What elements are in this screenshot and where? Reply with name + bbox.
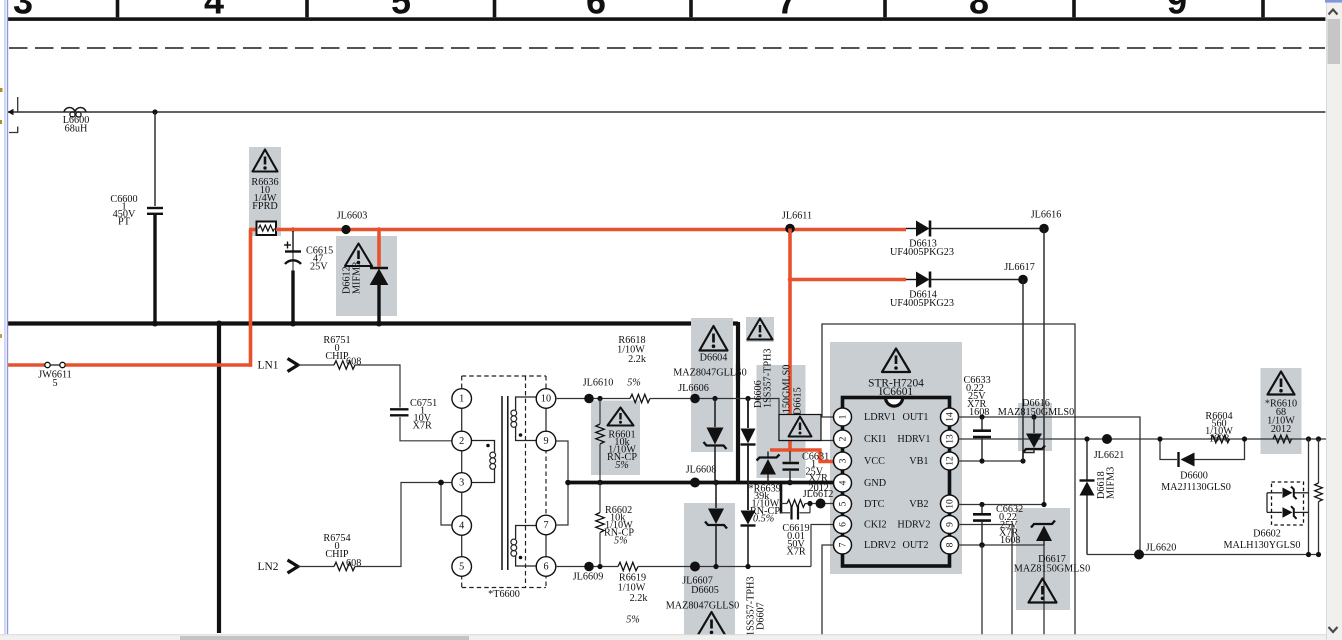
pin 1 LDRV1 <box>834 408 852 426</box>
wire red: JW6611 rail left <box>8 363 45 367</box>
junction R6639/C6619 <box>807 501 812 506</box>
warning triangle IC6601 <box>882 349 910 373</box>
svg-text:GND: GND <box>864 478 886 489</box>
svg-text:VB1: VB1 <box>909 456 928 467</box>
node JL6611 <box>785 224 795 234</box>
junction D6605/GND <box>713 480 719 486</box>
pin 10 VB2 <box>941 495 959 513</box>
svg-text:5%: 5% <box>614 536 628 547</box>
wire: C6615 to bus (thick) <box>291 271 294 324</box>
left panel border lines <box>4 0 5 634</box>
svg-text:X7R: X7R <box>413 421 432 432</box>
toolbar blue sliver top right <box>1325 0 1342 3</box>
bus: main thick horizontal <box>8 321 738 325</box>
svg-text:2: 2 <box>839 436 849 441</box>
warning label box D6605 <box>666 576 740 637</box>
pin 5 <box>452 557 472 577</box>
wire: R6619 to JL6607 <box>638 566 695 568</box>
svg-text:2.2k: 2.2k <box>628 354 647 365</box>
ruler tick 4/5 <box>305 0 309 17</box>
junction red D6612 <box>377 227 382 232</box>
svg-text:MAZ8150GMLS0: MAZ8150GMLS0 <box>1014 564 1090 575</box>
junction C6632 top <box>979 502 984 507</box>
wire: HDRV2 line <box>958 525 1012 640</box>
junction VB2/D6617 <box>1041 502 1046 507</box>
zener D6605 <box>705 483 727 567</box>
svg-text:X7R: X7R <box>786 547 805 558</box>
warning label box R6636 <box>251 150 278 213</box>
pin 6 <box>536 557 556 577</box>
svg-text:JL6606: JL6606 <box>678 383 709 394</box>
ruler tick 3/4 <box>116 0 120 17</box>
resistor R6610 <box>1273 435 1292 443</box>
svg-text:5: 5 <box>839 501 849 506</box>
wire: pin9 to GND bus <box>556 441 569 483</box>
svg-text:JL6616: JL6616 <box>1031 210 1062 221</box>
junction C6633 bottom <box>979 458 984 463</box>
pin 2 CKI1 <box>834 430 852 448</box>
diode D6606 <box>741 399 756 511</box>
resistor R6754 <box>323 533 361 571</box>
winding secondary upper <box>511 397 537 441</box>
wire: OUT1 line <box>958 417 1140 555</box>
ruler tick 7/8 <box>883 0 887 17</box>
svg-text:13: 13 <box>946 434 956 444</box>
node arrow at left edge <box>8 109 14 115</box>
junction R6601 top <box>597 396 602 401</box>
wire: right vertical plain <box>1308 439 1310 555</box>
junction red C6615 <box>291 227 296 232</box>
svg-text:MIFM3: MIFM3 <box>1106 467 1117 499</box>
junction C6633 top <box>979 414 984 419</box>
scrollbar thumb <box>1328 19 1341 64</box>
node JL6606 <box>690 394 700 404</box>
junction C6600/bus <box>152 321 158 327</box>
junction right pair bottom <box>1306 552 1311 557</box>
pin 7 LDRV2 <box>834 536 852 554</box>
warning label box R6601 <box>607 408 637 472</box>
pin 7 <box>536 515 556 535</box>
pin 8 OUT2 <box>941 536 959 554</box>
wire: LN2 to R6754 <box>298 566 334 568</box>
pin 1 <box>452 389 472 409</box>
resistor R6604 <box>1205 411 1233 445</box>
junction VB1/JL6617 <box>1020 458 1025 463</box>
wire: HDRV1 line <box>958 438 1327 440</box>
pin 9 HDRV2 <box>941 516 959 534</box>
junction C6632 bottom <box>979 542 985 548</box>
svg-text:12: 12 <box>946 456 956 466</box>
diode D6607 <box>741 511 756 567</box>
IC6601 body <box>843 398 950 567</box>
left margin marks <box>0 88 3 92</box>
scrollbar down arrow <box>1329 627 1338 632</box>
svg-text:5%: 5% <box>615 460 629 471</box>
diode D6618 <box>1080 439 1117 555</box>
svg-text:1SS357-TPH3: 1SS357-TPH3 <box>763 349 774 408</box>
resistor R6618 <box>617 335 650 403</box>
bus: secondary GND thick <box>566 481 838 485</box>
svg-text:VB2: VB2 <box>909 499 928 510</box>
svg-text:MAZ8047GLLS0: MAZ8047GLLS0 <box>666 601 740 612</box>
diode D6614 <box>890 272 954 310</box>
wire: R6618 to CKI1 <box>650 399 834 441</box>
diode D6600 bypass <box>1160 439 1245 493</box>
right scrollbar track <box>1327 0 1342 640</box>
svg-text:8: 8 <box>946 542 956 547</box>
wire: D6613 to JL6616 <box>930 228 1044 230</box>
pin 14 OUT1 <box>941 408 959 426</box>
svg-text:MALH130YGLS0: MALH130YGLS0 <box>1224 540 1301 551</box>
wire: pin4 link <box>441 483 452 526</box>
transformer core <box>502 396 508 570</box>
svg-text:5: 5 <box>52 378 57 389</box>
svg-text:HDRV2: HDRV2 <box>897 520 930 531</box>
warning label box D6617 <box>1014 554 1090 603</box>
junction D6606 <box>745 396 750 401</box>
ruler band numbers <box>13 0 1187 22</box>
svg-text:UF4005PKG23: UF4005PKG23 <box>890 298 954 309</box>
gray label-box underlays <box>249 147 1302 640</box>
node JL6612 <box>816 499 826 509</box>
junction right pair top <box>1306 436 1311 441</box>
capacitor C6600 <box>110 194 163 228</box>
svg-text:OUT1: OUT1 <box>902 412 928 423</box>
junction red D6614 rail <box>788 277 793 282</box>
svg-text:1: 1 <box>839 414 849 419</box>
svg-text:CKI1: CKI1 <box>864 434 887 445</box>
svg-text:9: 9 <box>543 436 548 447</box>
wire red: JW6611 riser <box>249 230 253 367</box>
svg-text:1: 1 <box>459 394 464 405</box>
node JL6617 <box>1018 275 1028 285</box>
svg-text:JL6621: JL6621 <box>1094 450 1125 461</box>
svg-text:D6615: D6615 <box>793 387 804 415</box>
svg-text:2.2k: 2.2k <box>630 593 649 604</box>
svg-text:JL6610: JL6610 <box>583 378 614 389</box>
warning label box R6610 <box>1265 372 1297 436</box>
wire stub tick <box>17 97 19 113</box>
pin 3 VCC <box>834 452 852 470</box>
resistor R6639 <box>749 483 835 525</box>
transformer T6600 dashed boundary <box>462 376 546 600</box>
pin 10 <box>536 389 556 409</box>
pin 6 CKI2 <box>834 516 852 534</box>
wire: R6751 to C6751 <box>355 365 400 408</box>
svg-text:FPRD: FPRD <box>252 201 277 212</box>
dual diode D6602 <box>1224 482 1309 551</box>
node JL6616 <box>1039 224 1049 234</box>
bottom scrollbar thumb <box>180 636 469 640</box>
node junction at top line <box>152 109 157 114</box>
svg-text:5%: 5% <box>626 615 640 626</box>
svg-text:6: 6 <box>543 562 548 573</box>
warning label box D6604 <box>673 326 747 380</box>
wire: CKI2 riser <box>811 525 834 567</box>
resistor R6619 <box>618 562 649 625</box>
svg-text:6: 6 <box>839 522 849 527</box>
node JL6608 <box>690 478 700 488</box>
node JL6621 <box>1102 434 1112 444</box>
winding secondary lower <box>511 526 537 567</box>
warning label box D6612 <box>342 244 373 295</box>
dashed boundary line <box>9 47 1325 49</box>
pin 2 <box>452 431 472 451</box>
svg-text:JL6620: JL6620 <box>1146 543 1177 554</box>
junction D6600 right <box>1242 436 1247 441</box>
svg-text:MA2J1130GLS0: MA2J1130GLS0 <box>1161 482 1231 493</box>
junction red C6611 <box>788 448 793 453</box>
svg-text:D6605: D6605 <box>691 585 719 596</box>
svg-text:5: 5 <box>459 562 464 573</box>
svg-text:608: 608 <box>346 558 361 569</box>
svg-text:HDRV1: HDRV1 <box>897 434 930 445</box>
svg-text:PT: PT <box>118 217 131 228</box>
resistor R6602 vertical <box>596 483 635 567</box>
svg-text:JL6617: JL6617 <box>1004 262 1035 273</box>
svg-text:MIFM3: MIFM3 <box>352 262 363 294</box>
wire: OUT2 line <box>958 545 1044 640</box>
inductor L6600 <box>63 107 90 134</box>
node LN1 <box>258 359 298 372</box>
svg-text:LN2: LN2 <box>258 561 279 573</box>
junction R6602/JL6609 <box>597 564 602 569</box>
wire: LN1 to R6751 <box>298 364 334 366</box>
transformer pin connectors <box>462 399 546 567</box>
svg-text:608: 608 <box>346 357 361 368</box>
wire: VB1 line <box>958 460 1023 462</box>
resistor R6751 <box>323 335 361 369</box>
ruler tick 5/6 <box>493 0 497 17</box>
svg-text:3: 3 <box>459 478 464 489</box>
capacitor C6619 <box>781 504 810 558</box>
ruler tick 8/9 <box>1072 0 1076 17</box>
winding primary <box>472 441 496 483</box>
wire red: D6612 drop <box>377 230 381 267</box>
svg-text:10: 10 <box>541 394 551 405</box>
svg-text:CKI2: CKI2 <box>864 520 887 531</box>
svg-text:7: 7 <box>839 542 849 547</box>
junction pin3 wire <box>438 480 444 486</box>
wire: C6632 drop <box>981 545 983 640</box>
junction D6612/bus <box>376 321 382 327</box>
zener D6616 <box>1023 417 1045 461</box>
svg-text:5%: 5% <box>627 378 641 389</box>
wire red: stub into R6636 <box>249 228 257 232</box>
svg-text:4: 4 <box>459 521 464 532</box>
warning triangle box D6615 <box>779 415 821 441</box>
svg-text:LDRV1: LDRV1 <box>864 412 896 423</box>
wire: top horizontal line <box>8 111 1325 113</box>
scrollbar up arrow <box>1329 10 1338 15</box>
warning label box D6615 <box>782 365 804 441</box>
junction C6611/GND <box>787 480 793 486</box>
wire: LDRV1 loop around IC <box>822 324 1075 640</box>
wire: thick vertical bus-to-GND <box>736 322 740 483</box>
svg-text:JL6611: JL6611 <box>782 211 812 222</box>
resistor R6601 vertical <box>596 399 604 483</box>
wire red: VCC rail <box>770 450 833 462</box>
pin 12 VB1 <box>941 452 959 470</box>
bottom scrollbar track <box>0 635 1326 640</box>
wire: GND bus to pin7 <box>556 483 569 526</box>
svg-text:1608: 1608 <box>969 407 989 418</box>
svg-text:D6600: D6600 <box>1180 471 1208 482</box>
diode D6612 <box>370 268 388 285</box>
svg-text:2: 2 <box>459 436 464 447</box>
node JL6620 <box>1134 550 1144 560</box>
warning label box D6606 <box>748 319 773 340</box>
svg-text:LN1: LN1 <box>258 360 279 372</box>
junction D6618/HDRV1 <box>1084 436 1089 441</box>
svg-text:9: 9 <box>946 522 956 527</box>
svg-text:JL6612: JL6612 <box>803 489 834 500</box>
wire: D6612 to bus (thick) <box>377 284 380 324</box>
svg-text:7: 7 <box>543 520 548 531</box>
node JL6603 <box>341 225 350 234</box>
junction pin9/GND <box>565 480 571 486</box>
diode D6613 <box>890 221 954 259</box>
node LN2 <box>258 560 298 573</box>
wire: C6600 to bus (thick) <box>153 215 156 324</box>
svg-text:68uH: 68uH <box>65 124 88 135</box>
svg-text:DTC: DTC <box>864 499 885 510</box>
resistor right vertical <box>1315 439 1323 555</box>
junction bus/vertical <box>216 321 222 327</box>
wire: bottom return line <box>1087 554 1319 556</box>
svg-text:14: 14 <box>946 412 956 422</box>
wire: pin10 to JL6610 <box>556 398 631 400</box>
svg-text:VCC: VCC <box>864 456 885 467</box>
jumper JW6611 <box>38 362 72 389</box>
dashed corner mark <box>9 127 18 133</box>
junction D6605 bottom <box>713 564 718 569</box>
zener D6615 <box>757 452 780 483</box>
capacitor C6751 <box>390 398 437 432</box>
svg-text:0.5%: 0.5% <box>753 514 774 525</box>
pin 4 <box>452 516 472 536</box>
svg-text:JL6608: JL6608 <box>686 465 717 476</box>
ruler tick 6/7 <box>689 0 693 17</box>
svg-text:MAZ8047GLLS0: MAZ8047GLLS0 <box>673 368 747 379</box>
capacitor C6632 <box>973 504 1023 546</box>
svg-text:D6607: D6607 <box>756 602 767 630</box>
svg-text:JL6609: JL6609 <box>573 572 604 583</box>
resistor R6636 (boxed) <box>257 222 277 236</box>
wire: JL6607 line <box>695 566 811 568</box>
svg-text:10: 10 <box>946 499 956 509</box>
pin 9 <box>536 431 556 451</box>
wire: C6751 to pin2 <box>400 417 452 441</box>
wire: D6614 to JL6617 <box>930 279 1023 281</box>
wire red: main top rail <box>276 228 906 232</box>
svg-text:1608: 1608 <box>1209 434 1229 445</box>
pin name labels <box>864 412 931 551</box>
svg-text:UF4005PKG23: UF4005PKG23 <box>890 247 954 258</box>
svg-text:*T6600: *T6600 <box>488 589 520 600</box>
junction D6604 <box>712 396 717 401</box>
junction C6615/bus <box>290 321 296 327</box>
wire: VB2 line <box>958 504 1044 506</box>
capacitor C6615 (polarized) <box>284 231 333 273</box>
svg-text:D6602: D6602 <box>1253 529 1281 540</box>
junction D6616 top <box>1031 414 1036 419</box>
ruler tick right <box>1261 0 1265 17</box>
svg-text:D6604: D6604 <box>700 353 728 364</box>
wire: LDRV2 drop <box>822 545 834 640</box>
zener D6617 <box>1031 521 1055 546</box>
svg-text:LDRV2: LDRV2 <box>864 540 896 551</box>
pin 3 <box>452 473 472 493</box>
svg-text:2012: 2012 <box>1271 424 1291 435</box>
wire: junction down to C6600 <box>154 112 156 206</box>
junction R6601/GND <box>597 480 603 486</box>
wire red: VCC riser <box>788 229 792 451</box>
wire: JL6617 drop <box>1022 280 1024 462</box>
wire red: JW6611 rail right <box>66 363 253 367</box>
pin 5 DTC <box>834 495 852 513</box>
node JL6610 <box>584 394 594 404</box>
svg-text:3: 3 <box>839 458 849 463</box>
svg-text:OUT2: OUT2 <box>902 540 928 551</box>
ruler baseline <box>8 17 1325 21</box>
pin 13 HDRV1 <box>941 430 959 448</box>
capacitor C6611 <box>783 452 830 495</box>
node JL6609 <box>584 562 594 572</box>
capacitor C6633 <box>964 375 992 461</box>
junction D6607 bottom <box>745 564 750 569</box>
wire: pin6 to JL6609 <box>556 566 619 568</box>
svg-text:25V: 25V <box>310 262 328 273</box>
svg-text:4: 4 <box>839 480 849 485</box>
wire: JL6616 drop <box>1043 229 1045 505</box>
node JL6607 <box>690 562 700 572</box>
svg-text:1/10W: 1/10W <box>618 583 646 594</box>
wire red: D6614 rail <box>790 278 906 282</box>
svg-text:JL6603: JL6603 <box>337 211 368 222</box>
zener D6604 <box>704 399 727 483</box>
pin 4 GND <box>834 474 852 492</box>
junction D6600 left <box>1157 436 1162 441</box>
wire: thick vertical left <box>217 324 221 634</box>
svg-text:MAZ8150GMLS0: MAZ8150GMLS0 <box>998 407 1074 418</box>
wire: R6754 to pin3 riser <box>355 483 452 567</box>
